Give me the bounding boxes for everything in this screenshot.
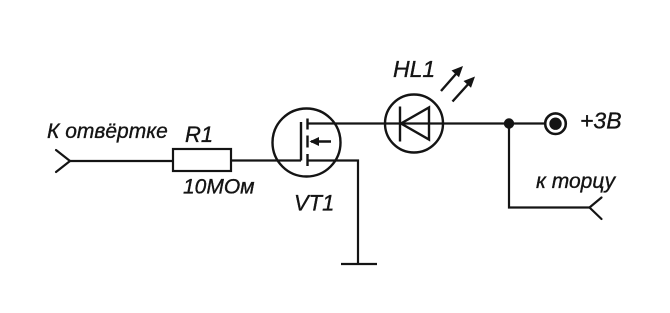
wire drain rail to node xyxy=(308,122,510,124)
svg-text:10МОм: 10МОм xyxy=(183,176,255,199)
LED HL1 xyxy=(385,95,443,153)
wire R1 to gate xyxy=(231,159,301,161)
wire source to ground xyxy=(308,161,359,265)
svg-text:R1: R1 xyxy=(185,122,213,147)
light emission arrows xyxy=(441,66,475,102)
svg-text:HL1: HL1 xyxy=(393,56,435,82)
transistor VT1 xyxy=(273,109,341,177)
svg-text:+3В: +3В xyxy=(580,108,622,134)
svg-text:VT1: VT1 xyxy=(294,191,334,216)
wire node down and right xyxy=(509,124,590,208)
probe connector (to screwdriver tip) xyxy=(56,150,70,172)
wire probe to R1 xyxy=(70,160,173,162)
wire node to +3V terminal xyxy=(509,122,545,124)
ground xyxy=(341,263,377,265)
+3V terminal socket xyxy=(545,113,566,134)
svg-text:к торцу: к торцу xyxy=(536,170,617,193)
svg-text:К отвёртке: К отвёртке xyxy=(47,120,168,143)
resistor R1 xyxy=(173,149,231,171)
node junction xyxy=(504,118,514,128)
probe connector (to battery end) xyxy=(590,198,602,220)
